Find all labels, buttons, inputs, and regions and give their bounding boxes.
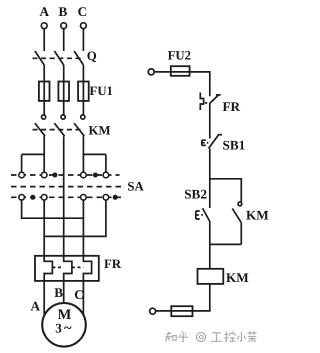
svg-text:3: 3 <box>55 321 62 336</box>
svg-text:SA: SA <box>127 180 144 194</box>
svg-text:FR: FR <box>104 257 122 271</box>
svg-text:A: A <box>40 4 50 19</box>
svg-text:B: B <box>54 285 63 300</box>
svg-text:B: B <box>59 4 68 19</box>
svg-text:Q: Q <box>87 49 97 63</box>
svg-text:FU1: FU1 <box>90 84 113 98</box>
svg-text:KM: KM <box>226 270 249 285</box>
svg-text:SB2: SB2 <box>184 186 207 201</box>
svg-text:FU2: FU2 <box>168 48 191 62</box>
svg-text:C: C <box>74 287 84 302</box>
svg-text:A: A <box>31 299 41 314</box>
svg-text:KM: KM <box>246 208 269 223</box>
svg-text:SB1: SB1 <box>223 138 246 153</box>
svg-text:C: C <box>78 4 88 19</box>
svg-text:FR: FR <box>223 99 241 114</box>
svg-text:KM: KM <box>89 123 111 137</box>
svg-text:~: ~ <box>64 321 72 337</box>
